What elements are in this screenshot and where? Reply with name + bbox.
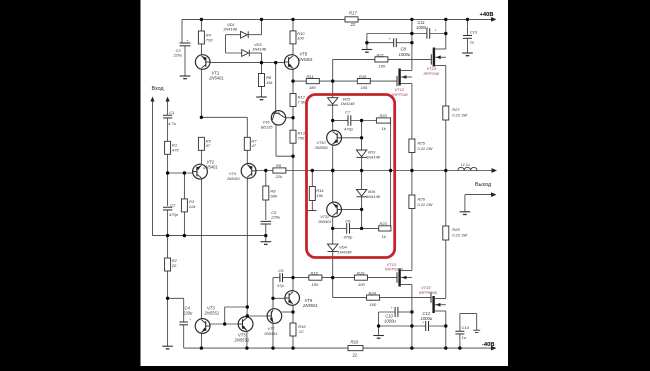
svg-text:C1: C1 bbox=[169, 110, 174, 115]
svg-text:R18: R18 bbox=[359, 74, 367, 79]
svg-text:1000u: 1000u bbox=[416, 25, 428, 30]
svg-text:220u: 220u bbox=[173, 54, 183, 58]
svg-text:1N4148: 1N4148 bbox=[341, 101, 356, 106]
svg-text:2N5551: 2N5551 bbox=[263, 332, 277, 336]
svg-text:22: 22 bbox=[298, 329, 304, 334]
svg-text:22: 22 bbox=[352, 352, 358, 357]
svg-text:R11: R11 bbox=[307, 74, 314, 79]
svg-text:47: 47 bbox=[252, 143, 257, 148]
svg-text:R17: R17 bbox=[349, 11, 357, 16]
svg-text:R25: R25 bbox=[418, 141, 426, 146]
svg-text:47p: 47p bbox=[277, 283, 284, 288]
svg-text:Вход: Вход bbox=[152, 86, 165, 92]
svg-text:1N4148: 1N4148 bbox=[338, 249, 353, 254]
svg-text:R6: R6 bbox=[276, 163, 282, 168]
svg-text:IRFP240: IRFP240 bbox=[392, 92, 409, 97]
svg-text:15k: 15k bbox=[266, 80, 273, 85]
svg-text:2N5401: 2N5401 bbox=[202, 164, 218, 169]
svg-text:2N5551: 2N5551 bbox=[204, 310, 220, 315]
svg-text:750: 750 bbox=[298, 136, 305, 141]
svg-text:R21: R21 bbox=[377, 52, 384, 57]
svg-text:R26: R26 bbox=[418, 197, 426, 202]
svg-text:R19: R19 bbox=[357, 270, 365, 275]
svg-text:470p: 470p bbox=[344, 234, 354, 239]
svg-text:10: 10 bbox=[172, 263, 177, 268]
svg-text:2N5401: 2N5401 bbox=[297, 57, 313, 62]
svg-text:+40В: +40В bbox=[480, 12, 494, 18]
svg-text:100: 100 bbox=[379, 63, 386, 68]
svg-text:IRFP9240: IRFP9240 bbox=[419, 290, 438, 295]
svg-text:0.22 2W: 0.22 2W bbox=[452, 112, 468, 117]
svg-text:7.5k: 7.5k bbox=[298, 100, 307, 105]
svg-text:470p: 470p bbox=[169, 212, 179, 217]
svg-text:R15: R15 bbox=[311, 270, 319, 275]
svg-text:1000u: 1000u bbox=[384, 319, 396, 324]
svg-text:470: 470 bbox=[172, 147, 179, 152]
svg-text:VT7: VT7 bbox=[268, 327, 276, 331]
svg-text:100: 100 bbox=[297, 36, 304, 41]
svg-text:R23: R23 bbox=[380, 221, 388, 226]
svg-text:BD135: BD135 bbox=[261, 125, 273, 129]
svg-text:2N5401: 2N5401 bbox=[208, 76, 224, 81]
svg-text:2N5551: 2N5551 bbox=[234, 337, 250, 342]
svg-text:R24: R24 bbox=[369, 290, 377, 295]
svg-text:C2: C2 bbox=[170, 202, 176, 207]
svg-text:+: + bbox=[422, 321, 424, 325]
svg-text:+: + bbox=[389, 37, 391, 41]
svg-text:VT6: VT6 bbox=[263, 121, 271, 125]
svg-text:22k: 22k bbox=[275, 174, 283, 179]
svg-text:2N5551: 2N5551 bbox=[314, 146, 328, 150]
svg-text:1u: 1u bbox=[470, 39, 475, 44]
svg-text:2N5551: 2N5551 bbox=[302, 303, 318, 308]
svg-text:C8: C8 bbox=[345, 219, 351, 224]
svg-text:R28: R28 bbox=[452, 227, 460, 232]
svg-text:180: 180 bbox=[309, 85, 316, 90]
svg-text:L1 1u: L1 1u bbox=[461, 163, 470, 167]
svg-text:C14: C14 bbox=[462, 325, 470, 330]
svg-text:C13: C13 bbox=[470, 29, 478, 34]
svg-text:22: 22 bbox=[350, 22, 356, 27]
svg-text:100: 100 bbox=[361, 85, 368, 90]
svg-text:220u: 220u bbox=[270, 214, 281, 219]
svg-text:VT4: VT4 bbox=[229, 172, 236, 176]
svg-text:1N4148: 1N4148 bbox=[252, 47, 267, 52]
svg-text:1N4148: 1N4148 bbox=[223, 27, 238, 32]
svg-text:0.22 2W: 0.22 2W bbox=[418, 202, 434, 207]
svg-text:R27: R27 bbox=[452, 107, 460, 112]
svg-text:+: + bbox=[189, 318, 191, 322]
svg-text:680: 680 bbox=[270, 193, 277, 198]
svg-text:1000u: 1000u bbox=[421, 316, 433, 321]
svg-text:IRFP240: IRFP240 bbox=[424, 71, 441, 76]
svg-text:R20: R20 bbox=[351, 340, 359, 345]
svg-text:100: 100 bbox=[312, 282, 319, 287]
svg-text:C7: C7 bbox=[345, 110, 351, 115]
svg-text:470p: 470p bbox=[344, 126, 354, 131]
svg-text:2N5401: 2N5401 bbox=[226, 177, 240, 181]
svg-text:Выход: Выход bbox=[475, 182, 492, 188]
svg-text:+: + bbox=[435, 28, 437, 32]
svg-text:1u: 1u bbox=[462, 335, 467, 340]
svg-text:100: 100 bbox=[358, 282, 365, 287]
svg-text:1N4148: 1N4148 bbox=[366, 154, 381, 159]
svg-text:-40В: -40В bbox=[482, 342, 495, 348]
svg-text:1000u: 1000u bbox=[399, 52, 411, 57]
svg-text:220u: 220u bbox=[182, 310, 193, 315]
svg-text:0.22 2W: 0.22 2W bbox=[418, 146, 434, 151]
svg-text:VT11: VT11 bbox=[320, 215, 329, 219]
svg-text:IRFP9240: IRFP9240 bbox=[385, 267, 404, 272]
svg-text:0.22 2W: 0.22 2W bbox=[452, 232, 468, 237]
svg-text:47: 47 bbox=[206, 143, 211, 148]
svg-text:4.7u: 4.7u bbox=[168, 121, 177, 126]
svg-text:15k: 15k bbox=[316, 193, 323, 198]
svg-text:+: + bbox=[391, 306, 393, 310]
svg-text:C6: C6 bbox=[278, 268, 284, 273]
svg-text:2N5401: 2N5401 bbox=[317, 220, 331, 224]
svg-text:100: 100 bbox=[370, 302, 377, 307]
svg-text:VT10: VT10 bbox=[316, 141, 326, 145]
svg-text:22k: 22k bbox=[188, 204, 196, 209]
svg-text:1N4148: 1N4148 bbox=[366, 194, 381, 199]
svg-text:R22: R22 bbox=[380, 113, 388, 118]
svg-text:730: 730 bbox=[206, 37, 213, 42]
